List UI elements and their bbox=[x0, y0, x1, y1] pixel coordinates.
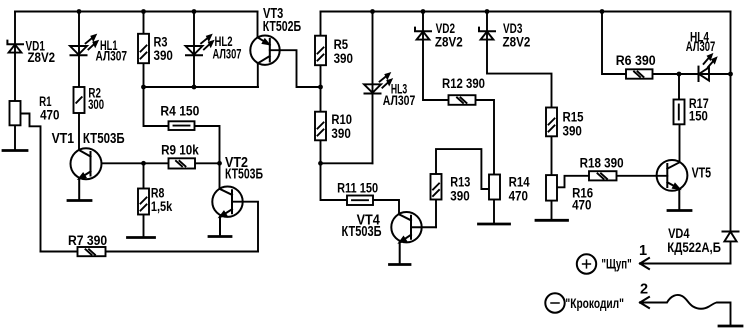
wire R13 column and tap to R14 side bbox=[436, 149, 490, 227]
ground under VT4 bbox=[390, 263, 411, 266]
resistor R2 bbox=[74, 87, 85, 113]
ground under R8 bbox=[128, 236, 155, 239]
resistor R10 bbox=[315, 112, 326, 141]
wire bottom (R7 line) bbox=[41, 251, 259, 253]
resistor R12 bbox=[449, 95, 476, 105]
resistor R1 bbox=[10, 101, 21, 125]
svg-text:АЛ307: АЛ307 bbox=[686, 39, 716, 54]
svg-text:VT5: VT5 bbox=[692, 165, 712, 181]
svg-text:Z8V2: Z8V2 bbox=[28, 50, 56, 65]
wire R6-HL4 row bbox=[602, 12, 731, 75]
svg-text:390: 390 bbox=[154, 48, 173, 63]
svg-text:R14: R14 bbox=[509, 175, 530, 190]
resistor R4 bbox=[169, 121, 195, 130]
svg-text:КД522А,Б: КД522А,Б bbox=[667, 240, 721, 255]
resistor R18 bbox=[589, 171, 617, 180]
wire R8 column bbox=[143, 163, 145, 237]
svg-text:VD4: VD4 bbox=[668, 226, 690, 241]
LED HL3 bbox=[364, 74, 391, 94]
wire R17 column bbox=[678, 74, 680, 100]
svg-text:АЛ307: АЛ307 bbox=[96, 49, 128, 64]
wire top rail right bbox=[321, 11, 731, 13]
ground under VT5 bbox=[668, 209, 691, 212]
svg-text:"Крокодил": "Крокодил" bbox=[565, 296, 624, 311]
svg-text:R9 10k: R9 10k bbox=[161, 143, 199, 158]
resistor R8 bbox=[138, 189, 149, 215]
wire VD2 to R12 to R14 top bbox=[423, 12, 494, 175]
svg-text:R12 390: R12 390 bbox=[442, 76, 485, 91]
resistor R16 bbox=[546, 175, 557, 201]
svg-text:R11 150: R11 150 bbox=[337, 181, 378, 196]
wire HL1-R2-VT1 column bbox=[78, 12, 80, 151]
svg-text:2: 2 bbox=[640, 281, 648, 297]
wire junction to HL3 bottom bbox=[321, 162, 373, 164]
transistor VT2 bbox=[212, 163, 242, 236]
svg-text:КТ503Б: КТ503Б bbox=[342, 224, 382, 240]
arrow head terminal 2 bbox=[640, 297, 649, 308]
ground under R1 bbox=[3, 149, 27, 152]
resistor R17 bbox=[674, 100, 685, 125]
transistor VT5 bbox=[657, 160, 688, 211]
ground under R16 bbox=[536, 219, 568, 222]
svg-text:АЛ307: АЛ307 bbox=[213, 46, 242, 61]
arrow head terminal 1 bbox=[640, 258, 649, 269]
svg-text:390: 390 bbox=[563, 124, 582, 139]
wire R5-R10 column bbox=[320, 12, 322, 164]
svg-text:390: 390 bbox=[331, 126, 350, 141]
wire VT3 base to R5 junction bbox=[270, 50, 321, 87]
resistor R5 bbox=[315, 36, 326, 65]
svg-text:Z8V2: Z8V2 bbox=[435, 34, 463, 49]
svg-text:"Щуп": "Щуп" bbox=[601, 257, 631, 272]
transistor VT4 bbox=[391, 212, 436, 265]
svg-text:R13: R13 bbox=[450, 175, 470, 190]
svg-text:1: 1 bbox=[639, 243, 647, 259]
zener diode VD3 bbox=[479, 28, 495, 40]
wire node A row bbox=[102, 162, 220, 164]
wire left column VD1-R1 bbox=[14, 12, 16, 151]
wire R4 loop bbox=[144, 87, 220, 163]
svg-text:R7 390: R7 390 bbox=[68, 233, 107, 248]
LED HL1 bbox=[70, 35, 97, 55]
svg-text:390: 390 bbox=[334, 51, 353, 66]
svg-text:300: 300 bbox=[88, 97, 104, 112]
svg-text:1,5k: 1,5k bbox=[151, 199, 173, 214]
svg-text:R5: R5 bbox=[334, 37, 349, 52]
svg-text:КТ503Б: КТ503Б bbox=[225, 167, 263, 183]
wire HL3 column bbox=[372, 12, 374, 164]
ground under VT1 bbox=[68, 199, 91, 202]
svg-text:470: 470 bbox=[509, 189, 528, 204]
svg-text:R6 390: R6 390 bbox=[616, 53, 656, 68]
svg-text:КТ502Б: КТ502Б bbox=[263, 19, 301, 35]
svg-text:КТ503Б: КТ503Б bbox=[83, 131, 125, 147]
terminal probe plus bbox=[577, 254, 596, 273]
wire VT2 base to bottom wire bbox=[232, 202, 258, 252]
wire junction to R11 and VT4 bbox=[321, 163, 400, 214]
resistor R15 bbox=[546, 108, 557, 137]
zener diode VD1 bbox=[7, 41, 23, 53]
transistor VT1 bbox=[71, 148, 102, 200]
wire R1 wiper tap to bottom wire bbox=[21, 114, 41, 252]
LED HL2 bbox=[186, 35, 213, 55]
svg-text:VT1: VT1 bbox=[52, 131, 75, 147]
svg-text:Z8V2: Z8V2 bbox=[503, 34, 531, 49]
wire R3 column bbox=[143, 12, 145, 88]
wire right column to VD4 bbox=[730, 12, 732, 264]
svg-text:470: 470 bbox=[572, 198, 591, 213]
svg-text:390: 390 bbox=[450, 189, 469, 204]
resistor R14 bbox=[489, 175, 500, 200]
LED HL4 bbox=[699, 55, 717, 81]
resistor R3 bbox=[138, 34, 149, 63]
svg-text:R10: R10 bbox=[331, 112, 352, 127]
wire top rail left bbox=[15, 11, 258, 13]
ground under VT2 bbox=[209, 235, 231, 238]
svg-text:470: 470 bbox=[40, 107, 59, 122]
wire node row y87 left bbox=[144, 86, 259, 88]
zener diode VD2 bbox=[415, 28, 431, 40]
svg-text:АЛ307: АЛ307 bbox=[383, 93, 416, 108]
wire VT3 collector down to y87 bbox=[257, 63, 259, 87]
wire HL2 column bbox=[193, 12, 195, 88]
resistor R13 bbox=[431, 174, 442, 200]
svg-text:R15: R15 bbox=[563, 110, 584, 125]
terminal crocodile minus bbox=[545, 293, 564, 312]
resistor R7 bbox=[78, 247, 106, 256]
diode VD4 bbox=[723, 232, 739, 242]
wire R14 bottom bbox=[493, 200, 495, 225]
ground bottom right bbox=[719, 325, 742, 328]
transistor VT3 bbox=[250, 12, 279, 65]
resistor R11 bbox=[347, 196, 373, 206]
resistor R9 bbox=[169, 158, 196, 168]
svg-text:R18 390: R18 390 bbox=[580, 156, 624, 171]
wire R16 wiper tap to R18 row bbox=[557, 176, 667, 188]
wire probe 2 squiggle line bbox=[640, 295, 731, 326]
wire R16 bottom bbox=[551, 201, 553, 221]
wire VD3 to R15 bbox=[487, 12, 552, 201]
svg-text:R4 150: R4 150 bbox=[160, 104, 199, 119]
wire probe 1 arrow line bbox=[640, 263, 731, 265]
wire VT5 collector to R17 bbox=[667, 124, 679, 168]
svg-text:150: 150 bbox=[689, 109, 708, 124]
resistor R6 bbox=[626, 69, 653, 78]
ground under R14 bbox=[479, 223, 510, 226]
